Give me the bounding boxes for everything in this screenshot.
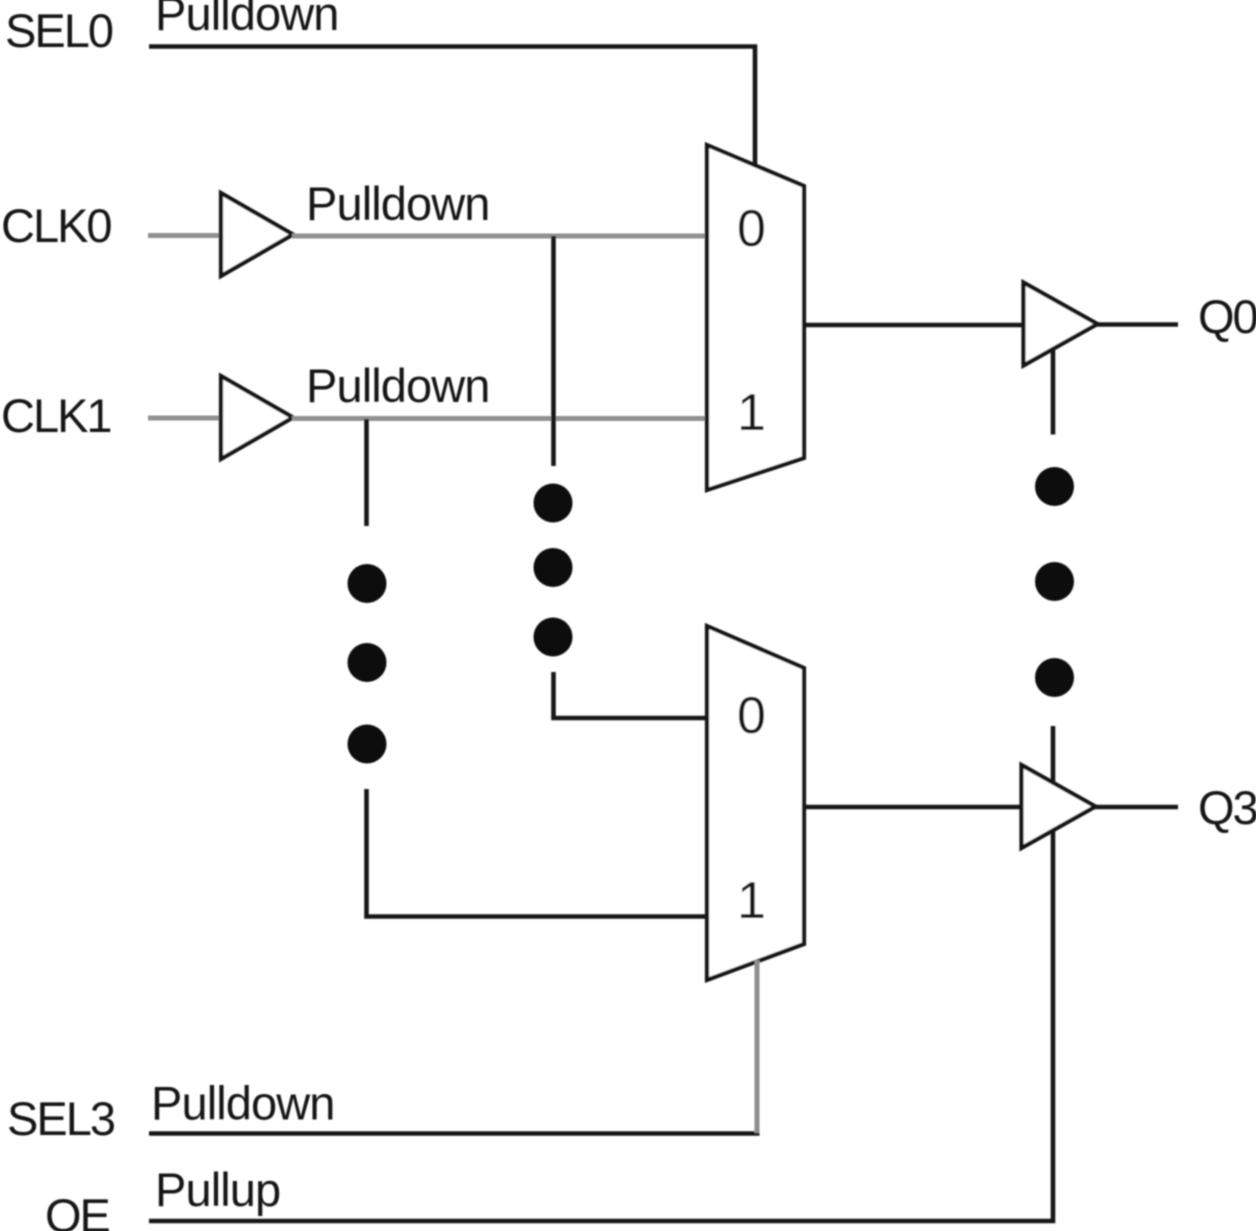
wire CLK1 input stub [148, 416, 221, 421]
buffer U2 (CLK1 input buffer) [221, 376, 293, 459]
wire Q3 output [1093, 805, 1178, 810]
wire MUX0 output [804, 323, 1025, 328]
svg-text:Q0: Q0 [1198, 290, 1256, 343]
wire left column to MUX3 input 1 [367, 789, 708, 917]
ellipsis dots middle column [534, 484, 573, 657]
svg-text:Pulldown: Pulldown [306, 177, 490, 230]
wire CLK1 buffered to MUX0 input 1 [292, 416, 707, 421]
wire OE to Q3 buffer enable [149, 831, 1053, 1221]
svg-text:SEL3: SEL3 [7, 1092, 115, 1145]
svg-text:SEL0: SEL0 [5, 4, 113, 57]
svg-text:OE: OE [45, 1189, 110, 1231]
mux MUX0 [707, 145, 804, 490]
wire Q0 output [1095, 322, 1178, 327]
svg-text:CLK0: CLK0 [1, 199, 111, 252]
buffer U1 (CLK0 input buffer) [221, 193, 293, 276]
wire CLK0 branch down (to MUX3 input 0) [551, 236, 556, 466]
wire CLK0 buffered to MUX0 input 0 [292, 234, 707, 239]
wire SEL3 to MUX3 select [755, 960, 760, 1133]
svg-text:Pulldown: Pulldown [306, 359, 490, 412]
buffer U3 (Q0 output buffer) [1024, 283, 1098, 366]
ellipsis dots left column [348, 564, 387, 764]
svg-text:0: 0 [737, 200, 766, 258]
svg-text:Pulldown: Pulldown [151, 1077, 335, 1130]
ellipsis dots right column [1035, 467, 1074, 697]
wire SEL0 to MUX0 select [149, 47, 755, 167]
svg-text:CLK1: CLK1 [1, 389, 111, 442]
wire right column to Q3 buffer enable [1051, 726, 1056, 784]
svg-text:Pullup: Pullup [155, 1163, 280, 1216]
svg-text:0: 0 [737, 687, 766, 745]
svg-text:1: 1 [737, 384, 766, 442]
wire middle column to MUX3 input 0 [554, 672, 708, 718]
wire SEL3 horizontal [149, 1131, 760, 1136]
wire Q0 buffer enable down [1051, 350, 1056, 435]
mux MUX3 [707, 626, 804, 980]
wire MUX3 output [804, 805, 1023, 810]
wire CLK0 input stub [148, 233, 221, 238]
wire CLK1 branch down (to MUX3 input 1) [364, 419, 369, 526]
buffer U4 (Q3 output buffer) [1022, 765, 1096, 848]
svg-text:Pulldown: Pulldown [155, 0, 339, 40]
svg-text:Q3: Q3 [1198, 781, 1256, 834]
svg-text:1: 1 [737, 872, 766, 930]
